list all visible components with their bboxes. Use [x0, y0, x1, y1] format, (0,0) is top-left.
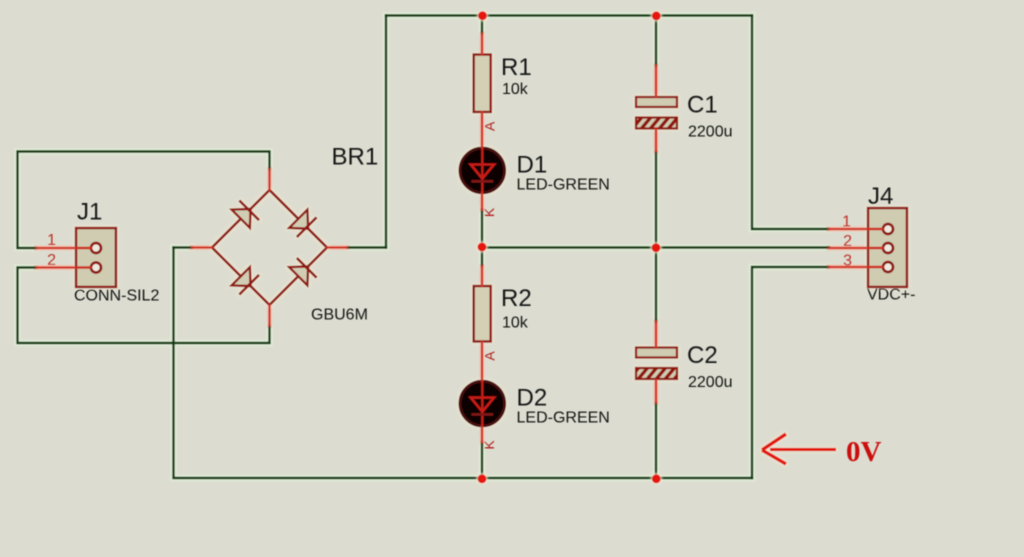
svg-text:A: A	[482, 351, 498, 361]
capacitor C1	[636, 97, 677, 129]
svg-text:J1: J1	[77, 199, 102, 226]
svg-text:2200u: 2200u	[688, 124, 733, 141]
wire core layer	[18, 16, 830, 479]
svg-text:2: 2	[47, 252, 56, 269]
capacitor C2	[636, 348, 677, 380]
svg-text:K: K	[481, 207, 497, 217]
resistor R1	[474, 55, 491, 113]
diode D-TR (top corner to right corner)	[289, 210, 317, 238]
0V annotation arrow	[762, 434, 836, 464]
junction dot mid rail / D1	[478, 243, 487, 252]
svg-text:CONN-SIL2: CONN-SIL2	[74, 288, 159, 305]
svg-text:D1: D1	[517, 152, 548, 179]
bridge rectifier BR1	[212, 190, 327, 305]
svg-text:C1: C1	[687, 92, 718, 119]
svg-text:1: 1	[842, 214, 851, 231]
svg-text:2200u: 2200u	[688, 374, 733, 391]
wire halo layer	[18, 16, 830, 479]
resistor R2	[474, 286, 491, 342]
svg-text:K: K	[481, 440, 497, 450]
junction dot top rail / R1	[478, 11, 487, 20]
svg-text:D2: D2	[517, 385, 548, 412]
svg-text:VDC+-: VDC+-	[867, 287, 915, 304]
bridge edges	[212, 190, 327, 305]
svg-text:2: 2	[843, 233, 852, 250]
svg-text:10k: 10k	[502, 81, 529, 98]
pin halo layer	[37, 34, 884, 442]
LED D2	[460, 381, 505, 426]
svg-text:0V: 0V	[846, 436, 882, 468]
diode D-BR (bottom corner to right corner)	[289, 258, 317, 286]
svg-text:BR1: BR1	[332, 144, 379, 171]
svg-text:3: 3	[843, 253, 852, 270]
junction dot bottom rail / C2	[652, 474, 661, 483]
svg-text:C2: C2	[687, 342, 718, 369]
diode D-BL (left corner to bottom corner)	[232, 267, 260, 295]
svg-text:R1: R1	[501, 54, 532, 81]
LED D1	[460, 148, 505, 193]
svg-text:LED-GREEN: LED-GREEN	[517, 177, 610, 194]
junction dot top rail / C1	[652, 11, 661, 20]
diode D-TL (left corner to top corner)	[232, 200, 260, 228]
svg-text:R2: R2	[501, 285, 532, 312]
svg-text:A: A	[482, 121, 498, 131]
svg-text:10k: 10k	[502, 315, 529, 332]
pin core layer	[37, 34, 884, 442]
svg-text:GBU6M: GBU6M	[311, 307, 368, 324]
connector J1	[76, 228, 116, 287]
junction dot bottom rail / D2	[478, 474, 487, 483]
connector J4	[868, 208, 907, 287]
svg-text:LED-GREEN: LED-GREEN	[517, 410, 610, 427]
junction dot mid rail / C2	[652, 243, 661, 252]
svg-text:J4: J4	[868, 183, 893, 210]
svg-text:1: 1	[47, 232, 56, 249]
